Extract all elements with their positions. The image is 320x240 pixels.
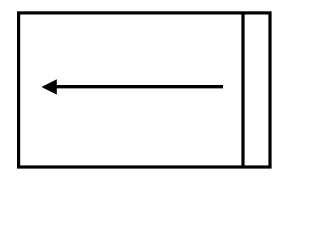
vertical divider line [241,13,244,167]
arrow shaft (wire) [56,85,224,88]
arrow head (left-pointing) [42,79,57,94]
outer rectangle box [19,13,270,167]
